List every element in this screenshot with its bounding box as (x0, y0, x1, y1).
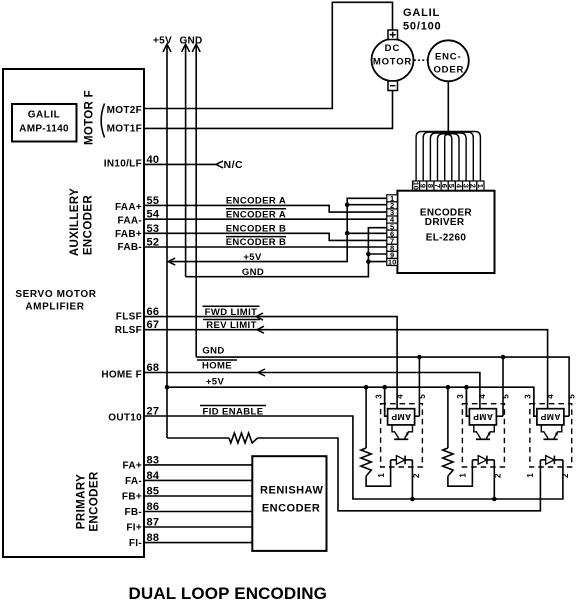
svg-text:5: 5 (418, 394, 427, 399)
svg-text:FAA-: FAA- (117, 215, 142, 226)
svg-text:GND: GND (179, 36, 202, 47)
svg-text:MOT2F: MOT2F (107, 105, 142, 116)
svg-text:ODER: ODER (433, 65, 464, 76)
svg-text:AMP: AMP (391, 412, 411, 422)
svg-text:+5V: +5V (206, 376, 225, 387)
svg-text:MOT1F: MOT1F (107, 124, 142, 135)
svg-text:EL-2260: EL-2260 (426, 233, 467, 244)
svg-text:HOME F: HOME F (101, 370, 142, 381)
svg-text:IN10/LF: IN10/LF (104, 159, 142, 170)
svg-text:4: 4 (478, 394, 487, 399)
svg-text:FB+: FB+ (122, 492, 142, 503)
svg-text:FI+: FI+ (126, 523, 142, 534)
svg-text:DC: DC (385, 43, 401, 54)
svg-text:ENCODER A: ENCODER A (226, 196, 286, 207)
svg-text:GALIL: GALIL (403, 7, 440, 19)
svg-text:FAB+: FAB+ (115, 229, 142, 240)
svg-text:PRIMARY: PRIMARY (76, 474, 88, 529)
svg-text:FI-: FI- (129, 538, 142, 549)
svg-text:5: 5 (501, 394, 510, 399)
svg-text:1: 1 (526, 473, 535, 478)
svg-text:ENCODER: ENCODER (262, 503, 321, 515)
svg-text:+5V: +5V (153, 36, 172, 47)
svg-text:FAA+: FAA+ (115, 202, 142, 213)
svg-text:DRIVER: DRIVER (425, 217, 465, 228)
svg-text:3: 3 (524, 394, 533, 399)
svg-text:50/100: 50/100 (403, 21, 441, 33)
svg-text:FB-: FB- (124, 507, 142, 518)
svg-text:REV LIMIT: REV LIMIT (206, 320, 257, 331)
svg-text:4: 4 (395, 394, 404, 399)
svg-text:FA+: FA+ (122, 460, 142, 471)
svg-text:+5V: +5V (243, 252, 262, 263)
svg-text:GND: GND (202, 346, 224, 357)
svg-text:FA-: FA- (125, 476, 142, 487)
svg-text:RLSF: RLSF (115, 325, 142, 336)
svg-text:DUAL LOOP ENCODING: DUAL LOOP ENCODING (129, 584, 328, 603)
svg-text:ENCODER: ENCODER (89, 471, 101, 532)
svg-text:GND: GND (242, 267, 264, 278)
svg-text:N/C: N/C (224, 159, 244, 171)
svg-text:1: 1 (377, 473, 386, 478)
svg-text:GALIL: GALIL (28, 110, 61, 121)
svg-text:ENCODER: ENCODER (83, 195, 95, 256)
svg-text:2: 2 (561, 473, 570, 478)
svg-text:SERVO MOTOR: SERVO MOTOR (15, 289, 96, 300)
svg-text:1: 1 (476, 184, 485, 188)
svg-text:ENCODER B: ENCODER B (226, 237, 287, 248)
svg-text:4: 4 (546, 394, 555, 399)
svg-text:FWD LIMIT: FWD LIMIT (205, 307, 258, 318)
svg-text:HOME: HOME (202, 361, 232, 372)
svg-text:3: 3 (374, 394, 383, 399)
svg-text:10: 10 (388, 258, 396, 267)
svg-text:MOTOR F: MOTOR F (84, 90, 96, 145)
svg-text:FID ENABLE: FID ENABLE (203, 406, 264, 417)
svg-text:ENCODER A: ENCODER A (226, 210, 286, 221)
svg-text:1: 1 (459, 473, 468, 478)
svg-text:AUXILLERY: AUXILLERY (69, 188, 81, 256)
svg-text:RENISHAW: RENISHAW (260, 485, 323, 497)
svg-text:MOTOR: MOTOR (373, 57, 412, 68)
svg-text:FAB-: FAB- (117, 242, 142, 253)
svg-text:ENC-: ENC- (435, 52, 461, 63)
svg-text:3: 3 (456, 394, 465, 399)
svg-text:5: 5 (568, 394, 577, 399)
svg-text:OUT10: OUT10 (108, 413, 142, 424)
svg-text:FLSF: FLSF (116, 311, 142, 322)
svg-text:AMP-1140: AMP-1140 (19, 124, 69, 135)
svg-text:AMPLIFIER: AMPLIFIER (25, 302, 84, 313)
svg-text:AMP: AMP (540, 412, 560, 422)
svg-text:ENCODER B: ENCODER B (226, 224, 287, 235)
svg-text:AMP: AMP (473, 412, 493, 422)
